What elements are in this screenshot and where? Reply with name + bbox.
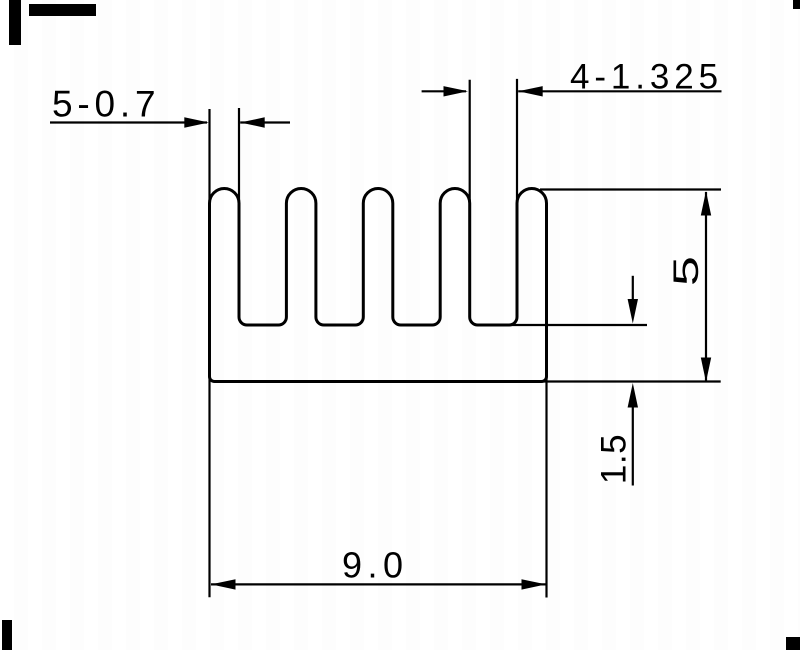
dimension 9.0 arrow left xyxy=(211,579,236,589)
corner mark top-right xyxy=(793,0,800,9)
svg-text:5: 5 xyxy=(666,256,705,286)
svg-text:4-1.325: 4-1.325 xyxy=(570,58,723,97)
corner mark bottom-left xyxy=(2,620,12,650)
dimension 5-0.7 arrow left with tail xyxy=(240,117,265,127)
extension line profile right edge down (x=547) xyxy=(545,370,547,598)
dimension 9.0 line xyxy=(211,583,546,585)
extension line base-bottom level (y=381.5) xyxy=(541,380,721,382)
extension line fin1 right edge (x=239) xyxy=(238,108,240,206)
corner mark top-left vertical xyxy=(9,0,21,45)
dimension 1.5 upper leader and arrow down xyxy=(632,276,634,302)
corner mark bottom-right xyxy=(786,637,800,650)
svg-text:5-0.7: 5-0.7 xyxy=(52,84,160,125)
extension line left (x=209.5, dim 5-0.7 top / 9.0 bottom) xyxy=(208,109,210,597)
dimension 9.0 arrow right xyxy=(522,579,547,589)
extension line gap-bottom level (y=325) xyxy=(504,324,647,326)
heatsink profile outline xyxy=(210,189,547,382)
corner mark top-left horizontal xyxy=(29,4,96,16)
dimension 5 arrow up xyxy=(701,191,711,216)
dimension 5-0.7 arrow right xyxy=(184,117,209,127)
extension line fin-top level (y=189.5) xyxy=(540,188,721,190)
svg-text:9.0: 9.0 xyxy=(342,545,409,586)
dimension 5 (height) line xyxy=(705,192,707,381)
extension line fin4 right edge (x=469.7) xyxy=(469,80,471,206)
dimension 1.5 lower leader and arrow up xyxy=(632,405,634,486)
dimension 4-1.325 arrow right xyxy=(444,86,469,96)
extension line fin5 left edge (x=517) xyxy=(516,79,518,206)
dimension 4-1.325 arrow left with tail xyxy=(518,86,543,96)
dimension 5-0.7 leader line xyxy=(50,121,207,123)
svg-text:1.5: 1.5 xyxy=(595,434,634,484)
dimension 5 arrow down xyxy=(701,358,711,383)
dimension 4-1.325 left leader xyxy=(422,90,466,92)
